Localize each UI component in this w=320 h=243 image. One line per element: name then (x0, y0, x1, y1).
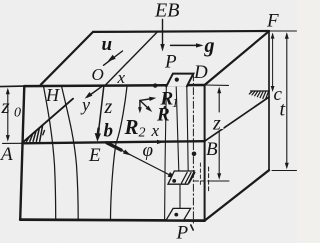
dash-dot axis P-P' (192, 74, 194, 225)
label z (dimension) (215, 117, 224, 129)
bottom right tick (272, 170, 297, 172)
E B field arrow (vertical, top) (162, 20, 164, 47)
R-dot arrow (down-right) (141, 101, 149, 109)
z0 dimension (far left) (7, 91, 9, 139)
dashed projection lines near lower element (195, 180, 211, 182)
x axis line from O to back edge (105, 32, 158, 86)
flow line 2 (62, 86, 79, 220)
z dim bottom tick (211, 180, 229, 182)
label B (207, 143, 218, 155)
t dimension (286, 34, 288, 166)
hatched wedge at A (27, 137, 30, 142)
lower area element (hatched parallelogram) (168, 171, 194, 184)
ground surface line (front-top edge with extension ticks) (0, 85, 25, 88)
c dimension (272, 34, 274, 88)
back top edge (93, 30, 269, 33)
z axis line (99, 86, 104, 131)
area element P (parallelogram on top edge) (166, 74, 193, 87)
z dimension (x=219) (218, 90, 220, 113)
dot in lower element (172, 179, 176, 183)
water table line A-B (front face) (3, 142, 23, 144)
dot in element P (175, 78, 179, 82)
line H (sloping head line from A) (23, 99, 73, 143)
back right edge (268, 31, 270, 170)
flow line 6 (prism edge) (187, 87, 188, 171)
vector u (on top face, mid arrowhead) (104, 51, 123, 65)
flow line 4 (165, 87, 167, 221)
R1 arrow (from corner, to the right) (140, 99, 153, 101)
right front edge (204, 85, 206, 221)
edge D to F (205, 31, 269, 85)
y axis arrow (88, 85, 104, 97)
bottom right receding edge (205, 170, 269, 220)
hatched wedge at C (251, 90, 270, 92)
bottom front edge (20, 220, 204, 221)
mid arrowhead on streamline (123, 150, 131, 156)
junction dot on top edge (153, 83, 157, 87)
vector b (bold down arrow to E) (97, 129, 100, 136)
flow line 3 (through E) (111, 86, 128, 219)
bold segment at E (107, 143, 121, 150)
top-left slanted edge (41, 32, 93, 85)
R arrow (down) (139, 100, 141, 109)
streamline direction line from E to element (107, 143, 170, 175)
flow line 1 (44, 86, 56, 219)
dot near B on axis (192, 152, 197, 157)
flow line 5 (prism edge) (176, 87, 179, 171)
left front edge (20, 86, 24, 220)
bottom projection element at P prime (167, 208, 191, 219)
vector g arrow (171, 44, 200, 46)
dot in bottom element (174, 213, 178, 217)
x arrow at E (along water line) (157, 140, 165, 144)
water table line B-C (right face) (205, 97, 269, 141)
end arrowhead pointing at element (168, 172, 177, 178)
